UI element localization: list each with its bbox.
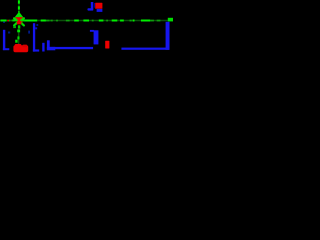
LED D3 glow hump — [15, 44, 22, 47]
wire segment medium brightness — [9, 20, 161, 22]
resistor R1 block (red, right) — [105, 41, 109, 49]
scope trace blue: fat bar mid — [94, 30, 99, 44]
scope trace blue: tall bar under node — [33, 23, 35, 51]
diode D1 triangle — [15, 12, 24, 18]
junction right wire flash — [22, 19, 25, 21]
scope trace blue: corner thickening — [47, 47, 55, 50]
scope trace blue: long low segment — [47, 47, 93, 49]
diode D2 lower stub — [18, 25, 20, 28]
faint blue dot near bar top — [36, 24, 38, 26]
faint blue dot near bar — [35, 27, 37, 29]
scope trace blue: right low segment — [121, 48, 169, 50]
node post (red dot on wire) — [7, 20, 9, 22]
wire (horizontal main, dim base) — [0, 20, 173, 22]
junction arms (green X) — [14, 18, 24, 25]
faint blue dot x28 — [28, 31, 30, 34]
diode D2 red center band — [17, 17, 23, 24]
faint blue sliver left of contact — [93, 3, 96, 8]
switch SW1 contact (red square) — [95, 3, 102, 9]
current dot on top wire — [18, 6, 20, 9]
diode D2 body (red, below node) — [17, 21, 22, 24]
LED D3 glow right shoulder — [23, 45, 28, 48]
scope trace blue: fat bar tail — [90, 30, 94, 32]
scope trace blue: left bracket vertical — [3, 30, 5, 50]
diode D1 cathode bar — [15, 17, 24, 19]
current dot on top wire — [18, 0, 20, 3]
scope trace blue: L vertical — [47, 40, 50, 49]
wire (top vertical, dim base) — [18, 0, 20, 12]
scope trace blue: right tall bar — [166, 22, 170, 50]
switch SW1 lever (blue J) — [87, 2, 93, 11]
current dot on lower wire — [17, 30, 20, 33]
current dots on horizontal wire — [1, 20, 151, 22]
scope trace blue: tall bar foot — [33, 49, 39, 51]
junction green patch left — [13, 26, 16, 28]
LED D3 glowing body — [13, 45, 28, 52]
current dot on lower wire — [15, 40, 17, 43]
diode D1 anode wire stub — [18, 11, 19, 13]
junction left wire flash — [13, 19, 17, 21]
scope trace blue: short bar — [42, 43, 44, 52]
faint blue dot left — [3, 22, 5, 23]
faint blue dot x8 — [8, 32, 10, 34]
wire (lower vertical, dim base) — [18, 28, 20, 44]
scope trace blue: left bracket foot — [3, 48, 9, 50]
current dot on lower wire — [17, 36, 19, 39]
switch SW1 blue underline — [97, 9, 103, 12]
node at right edge (green block) — [168, 18, 173, 22]
